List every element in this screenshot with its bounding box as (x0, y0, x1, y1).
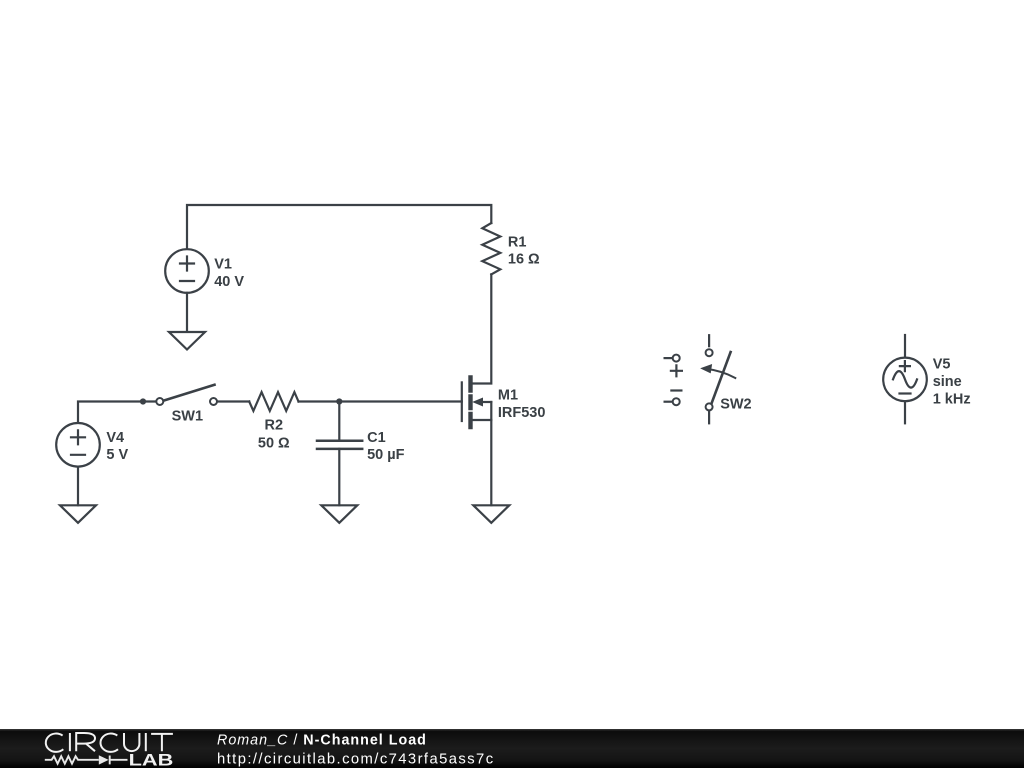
wire V1 to ground (186, 293, 188, 332)
svg-text:5 V: 5 V (106, 447, 128, 463)
svg-text:Roman_C / N-Channel Load: Roman_C / N-Channel Load (217, 732, 427, 748)
ground (V1) (169, 332, 205, 350)
voltage source V1 (165, 249, 209, 293)
svg-text:R1: R1 (508, 234, 527, 250)
resistor R1 (482, 223, 500, 274)
switch SW2 minus sign (671, 389, 681, 391)
label R2 value (258, 418, 290, 452)
switch SW1 (156, 385, 217, 405)
switch SW2 (702, 335, 736, 423)
svg-text:http://circuitlab.com/c743rfa5: http://circuitlab.com/c743rfa5ass7c (217, 751, 495, 767)
svg-text:IRF530: IRF530 (498, 405, 546, 421)
node junction at SW1 input (140, 398, 146, 404)
svg-text:sine: sine (933, 374, 962, 390)
switch SW2 plus sign (671, 365, 682, 376)
svg-text:SW2: SW2 (720, 397, 751, 413)
switch SW2 control + terminal (665, 355, 680, 362)
CircuitLab logo resistor-diode glyph (45, 755, 128, 764)
svg-text:V4: V4 (106, 430, 124, 446)
ground (C1) (321, 505, 357, 523)
svg-text:V1: V1 (214, 257, 232, 273)
capacitor C1 (317, 441, 362, 449)
wire node to C1 (338, 402, 340, 441)
CircuitLab logo LAB (129, 752, 174, 768)
wire R1 to M1 drain (473, 274, 492, 383)
svg-text:SW1: SW1 (172, 408, 203, 424)
label V5 value (933, 356, 971, 407)
label V4 value (106, 430, 128, 463)
ground (V4) (60, 505, 96, 523)
label SW1 (172, 408, 203, 424)
svg-text:V5: V5 (933, 356, 951, 372)
label M1 value (498, 388, 546, 421)
switch SW2 control - terminal (665, 398, 680, 405)
svg-text:C1: C1 (367, 430, 386, 446)
node junction at C1 (336, 398, 342, 404)
wire top rail from V1 to R1 (187, 205, 491, 249)
wire V4 to ground (77, 467, 79, 506)
voltage source V4 (56, 423, 100, 467)
svg-text:1 kHz: 1 kHz (933, 392, 971, 408)
wire M1 source to ground (490, 420, 492, 505)
wire SW1 to R2 (218, 400, 249, 402)
footer bar (0, 729, 1024, 768)
wire R2 to M1 gate (299, 400, 462, 402)
svg-text:R2: R2 (265, 418, 284, 434)
label V1 value (214, 257, 244, 290)
wire V4 to SW1 (78, 402, 155, 423)
wire C1 to ground (338, 449, 340, 505)
label SW2 (720, 397, 751, 413)
transistor M1 (462, 378, 492, 428)
ground (M1) (473, 505, 509, 523)
voltage source V5 (883, 335, 927, 423)
svg-text:16 Ω: 16 Ω (508, 252, 540, 268)
label C1 value (367, 430, 405, 463)
svg-text:M1: M1 (498, 388, 518, 404)
label R1 value (508, 234, 540, 267)
CircuitLab logo CIRCUIT wordmark (46, 733, 173, 752)
svg-text:LAB: LAB (129, 752, 174, 768)
svg-text:50 µF: 50 µF (367, 447, 405, 463)
svg-text:40 V: 40 V (214, 274, 244, 290)
svg-text:50 Ω: 50 Ω (258, 435, 290, 451)
footer title (217, 732, 495, 767)
resistor R2 (249, 392, 298, 411)
